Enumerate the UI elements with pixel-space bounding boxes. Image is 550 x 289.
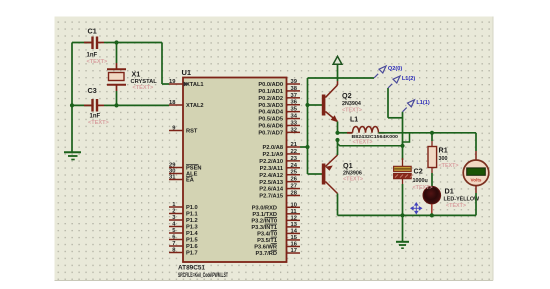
svg-text:31: 31 [169, 175, 176, 181]
wire bottom rail [338, 214, 477, 216]
svg-text:12: 12 [291, 215, 297, 221]
svg-text:10: 10 [291, 202, 297, 208]
pin 4 P1.3 [169, 226, 183, 228]
node plus marker C2 polarity [411, 203, 422, 214]
wire left rail vertical [71, 43, 73, 153]
pin 38 P0.1/AD1 [287, 90, 301, 92]
pin 25 P2.4/A12 [287, 174, 301, 176]
pin 6 P1.5 [169, 239, 183, 241]
svg-text:SRCFILE=Keil_Code\PWM.LST: SRCFILE=Keil_Code\PWM.LST [178, 273, 228, 279]
svg-text:P3.0/RXD: P3.0/RXD [252, 205, 277, 211]
svg-text:2N3904: 2N3904 [342, 101, 361, 107]
svg-text:RST: RST [186, 129, 198, 135]
pin 7 P1.6 [169, 245, 183, 247]
capacitor C1 [72, 42, 92, 44]
svg-text:<TEXT>: <TEXT> [343, 177, 363, 183]
pin 14 P3.4/T0 [287, 232, 301, 234]
pin 16 P3.6/WR [287, 245, 301, 247]
svg-text:P1.4: P1.4 [186, 231, 199, 237]
wire base rail vertical [307, 78, 309, 174]
transistor Q2 2N3904 [308, 104, 323, 106]
pin 2 P1.1 [169, 213, 183, 215]
wire P2.0 to base rail [300, 146, 308, 148]
svg-text:P1.7: P1.7 [186, 251, 198, 257]
pin 9 RST [169, 130, 183, 132]
svg-text:2: 2 [172, 209, 175, 215]
svg-text:33: 33 [291, 120, 298, 126]
pin 33 P0.6/AD6 [287, 124, 301, 126]
svg-text:<TEXT>: <TEXT> [87, 59, 109, 65]
svg-text:P0.2/AD2: P0.2/AD2 [258, 96, 283, 102]
wire output rail [379, 132, 477, 134]
ground left [64, 151, 81, 153]
svg-text:P3.5/T1: P3.5/T1 [257, 238, 277, 244]
node output/C2 [400, 144, 404, 148]
node base rail Q2 [305, 103, 309, 107]
svg-text:L1(2): L1(2) [402, 76, 416, 82]
crystal X1 [116, 43, 118, 64]
node C3/X1 junction [114, 103, 118, 107]
pin 10 P3.0/RXD [287, 206, 301, 208]
capacitor C3 [72, 104, 92, 106]
svg-text:1000u: 1000u [413, 178, 428, 184]
ground bottom [402, 215, 404, 241]
pin 12 P3.2/INT0 [287, 219, 301, 221]
svg-text:R1: R1 [439, 146, 448, 155]
svg-text:XTAL1: XTAL1 [186, 82, 204, 88]
svg-text:7: 7 [172, 241, 175, 247]
svg-text:Volts: Volts [471, 178, 482, 183]
pin 32 P0.7/AD7 [287, 131, 301, 133]
svg-text:P0.4/AD4: P0.4/AD4 [258, 110, 283, 116]
svg-text:P2.2/A10: P2.2/A10 [259, 159, 283, 165]
node C1/X1 junction [114, 40, 118, 44]
svg-text:U1: U1 [182, 68, 192, 77]
svg-text:37: 37 [291, 93, 297, 99]
probe Q2(0) [374, 74, 378, 78]
svg-text:34: 34 [291, 114, 298, 120]
svg-text:18: 18 [169, 100, 176, 106]
svg-text:39: 39 [291, 79, 298, 85]
pin 26 P2.5/A13 [287, 181, 301, 183]
pin marker XTAL1 arrow [184, 82, 189, 87]
svg-text:23: 23 [291, 156, 298, 162]
wire emitter jog to C2 node [338, 140, 403, 146]
svg-text:AT89C51: AT89C51 [178, 265, 206, 272]
node base rail P2.0 [305, 145, 309, 149]
svg-text:Q2(0): Q2(0) [388, 66, 402, 72]
transistor Q1 2N3906 [308, 173, 323, 175]
svg-text:28: 28 [291, 191, 298, 197]
svg-text:P2.1/A9: P2.1/A9 [262, 152, 283, 158]
svg-text:P1.1: P1.1 [186, 212, 198, 218]
svg-text:<TEXT>: <TEXT> [353, 140, 373, 146]
svg-text:35: 35 [291, 107, 298, 113]
capacitor C2 1000u [402, 146, 404, 160]
schematic sheet [55, 17, 494, 281]
pin 1 P1.0 [169, 206, 183, 208]
pin 31 EA [169, 179, 183, 181]
svg-text:P2.3/A11: P2.3/A11 [260, 166, 283, 172]
svg-text:P3.1/TXD: P3.1/TXD [252, 212, 277, 218]
svg-text:38: 38 [291, 86, 298, 92]
svg-text:13: 13 [291, 222, 298, 228]
inductor L1 [338, 132, 353, 134]
svg-text:P1.2: P1.2 [186, 218, 198, 224]
svg-text:25: 25 [291, 170, 298, 176]
svg-text:22: 22 [291, 149, 297, 155]
node bottom/C2 [400, 213, 404, 217]
svg-text:<TEXT>: <TEXT> [439, 163, 459, 169]
svg-text:C3: C3 [88, 86, 97, 95]
svg-text:<TEXT>: <TEXT> [446, 203, 466, 209]
svg-text:C2: C2 [414, 167, 423, 176]
pin 23 P2.2/A10 [287, 160, 301, 162]
svg-text:P0.3/AD3: P0.3/AD3 [258, 103, 283, 109]
wire probe L1(1) down [402, 112, 404, 146]
pin 27 P2.6/A14 [287, 188, 301, 190]
svg-text:Q1: Q1 [343, 161, 353, 170]
svg-text:C1: C1 [88, 27, 97, 36]
svg-text:P1.6: P1.6 [186, 244, 198, 250]
pin 34 P0.5/AD5 [287, 118, 301, 120]
svg-text:EA: EA [186, 178, 194, 184]
svg-text:19: 19 [169, 79, 176, 85]
node left rail/C3 junction [70, 103, 74, 107]
wire probe feed horizontal [308, 77, 375, 79]
svg-text:Q2: Q2 [342, 91, 352, 100]
svg-text:27: 27 [291, 184, 297, 190]
svg-text:300: 300 [439, 156, 448, 162]
svg-text:P1.5: P1.5 [186, 238, 198, 244]
svg-text:17: 17 [291, 248, 297, 254]
pin 3 P1.2 [169, 219, 183, 221]
resistor R1 [431, 133, 433, 141]
svg-text:D1: D1 [445, 187, 454, 196]
wire output corner to voltmeter [475, 133, 477, 151]
svg-text:P3.6/WR: P3.6/WR [254, 245, 277, 251]
svg-text:P3.4/T0: P3.4/T0 [257, 232, 277, 238]
svg-text:P0.1/AD1: P0.1/AD1 [258, 89, 283, 95]
svg-text:B82432C1564K000: B82432C1564K000 [352, 134, 399, 139]
pin 19 XTAL1 [169, 83, 183, 85]
svg-text:<TEXT>: <TEXT> [413, 185, 433, 191]
pin 29 PSEN [169, 167, 183, 169]
wire XTAL1 [117, 42, 163, 44]
op chip U1 AT89C51 body [183, 78, 287, 263]
svg-text:P0.7/AD7: P0.7/AD7 [258, 130, 283, 136]
svg-text:16: 16 [291, 241, 298, 247]
svg-text:P0.0/AD0: P0.0/AD0 [258, 82, 283, 88]
svg-text:P1.3: P1.3 [186, 225, 198, 231]
svg-text:1nF: 1nF [87, 53, 98, 59]
svg-text:P2.6/A14: P2.6/A14 [259, 187, 284, 193]
pin 11 P3.1/TXD [287, 213, 301, 215]
node output/R1 [430, 131, 434, 135]
svg-text:36: 36 [291, 100, 298, 106]
wire probe L1(2) down [387, 88, 389, 118]
svg-text:24: 24 [291, 163, 298, 169]
svg-text:P0.6/AD6: P0.6/AD6 [258, 124, 283, 130]
pin 15 P3.5/T1 [287, 239, 301, 241]
svg-text:P1.0: P1.0 [186, 205, 198, 211]
svg-text:14: 14 [291, 228, 298, 234]
voltmeter [475, 151, 477, 160]
pin 21 P2.0/A8 [287, 146, 301, 148]
pin 22 P2.1/A9 [287, 153, 301, 155]
node emitters jog [335, 138, 339, 142]
wire output jog to C2 [403, 133, 410, 146]
svg-text:P3.2/INT0: P3.2/INT0 [251, 218, 277, 224]
svg-text:<TEXT>: <TEXT> [133, 85, 155, 91]
svg-text:P2.7/A15: P2.7/A15 [259, 194, 283, 200]
svg-text:P2.0/A8: P2.0/A8 [262, 145, 283, 151]
svg-text:<TEXT>: <TEXT> [88, 120, 110, 126]
pin 17 P3.7/RD [287, 252, 301, 254]
power VCC arrow [337, 64, 339, 81]
svg-text:1nF: 1nF [90, 114, 101, 120]
pin 39 P0.0/AD0 [287, 83, 301, 85]
svg-text:LED-YELLOW: LED-YELLOW [444, 197, 481, 203]
pin 35 P0.4/AD4 [287, 111, 301, 113]
svg-text:XTAL2: XTAL2 [186, 103, 204, 109]
pin 18 XTAL2 [169, 104, 183, 106]
svg-text:P2.4/A12: P2.4/A12 [259, 173, 283, 179]
svg-text:11: 11 [291, 209, 298, 215]
node bottom/D1 [430, 213, 434, 217]
svg-text:P3.3/INT1: P3.3/INT1 [251, 225, 277, 231]
svg-text:X1: X1 [132, 70, 141, 79]
wire XTAL2 [117, 104, 170, 106]
pin 36 P0.3/AD3 [287, 104, 301, 106]
svg-text:32: 32 [291, 127, 297, 133]
svg-text:L1: L1 [350, 117, 358, 124]
svg-text:15: 15 [291, 235, 298, 241]
svg-text:L1(1): L1(1) [416, 100, 430, 106]
svg-text:26: 26 [291, 177, 298, 183]
svg-text:21: 21 [291, 142, 298, 148]
pin 13 P3.3/INT1 [287, 226, 301, 228]
svg-text:<TEXT>: <TEXT> [342, 108, 362, 114]
pin 28 P2.7/A15 [287, 195, 301, 197]
pin 8 P1.7 [169, 252, 183, 254]
pin 5 P1.4 [169, 232, 183, 234]
svg-text:P2.5/A13: P2.5/A13 [259, 180, 283, 186]
pin 37 P0.2/AD2 [287, 97, 301, 99]
node emitters/L1 [335, 131, 339, 135]
svg-text:P3.7/RD: P3.7/RD [256, 251, 278, 257]
pin 24 P2.3/A11 [287, 167, 301, 169]
pin 30 ALE [169, 173, 183, 175]
svg-text:P0.5/AD5: P0.5/AD5 [258, 117, 283, 123]
